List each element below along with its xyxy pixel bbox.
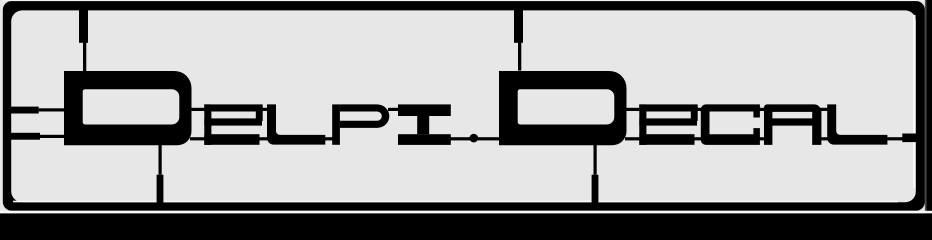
wire D2-E2 baseline connector [625, 137, 640, 140]
letter I [398, 104, 451, 144]
wire L2-border baseline connector [886, 137, 903, 140]
wire left tick lower thick [10, 133, 40, 140]
right black margin [926, 0, 932, 217]
wire bottom tick 1 thick [157, 175, 164, 204]
letter C [701, 104, 760, 144]
top white edge line [3, 0, 925, 1]
wire right tick thick [902, 134, 916, 143]
letter E2 [639, 104, 697, 144]
wire top tick 2 thin [518, 43, 521, 71]
letter P [332, 104, 389, 144]
letter L1 [267, 104, 325, 144]
letter L2 [827, 104, 887, 144]
wire E2-C top connector [697, 108, 702, 111]
wire left tick lower thin [40, 135, 65, 138]
right dark seam [925, 0, 927, 217]
wire A-L2 baseline connector [820, 137, 828, 140]
wire D2-E2 top connector [625, 108, 640, 111]
wire E1-L1 baseline connector [258, 137, 268, 140]
wire bottom tick 2 thin [594, 145, 597, 175]
wire I-dot baseline connector [450, 137, 470, 140]
wire top tick 1 thick [79, 9, 88, 43]
wire D1-E1 top connector [190, 108, 205, 111]
wire P-I top connector [388, 108, 398, 111]
wire C-A baseline connector [759, 137, 765, 140]
letter D2 [499, 71, 627, 145]
wire E1-L1 top connector [262, 108, 268, 111]
wire bottom tick 1 thin [159, 145, 162, 175]
letter D1 [64, 71, 192, 145]
wire L1-P baseline connector [324, 137, 333, 140]
period dot [470, 134, 479, 143]
bottom black margin [0, 213, 932, 217]
letter A [764, 104, 821, 145]
wire left tick upper thin [39, 108, 65, 111]
wire C-A top connector [759, 108, 765, 111]
bottom inner white highlight [13, 201, 898, 203]
wire top tick 2 thick [514, 9, 523, 43]
wire top tick 1 thin [83, 43, 86, 72]
letter E1 [204, 104, 262, 144]
wire left tick upper thick [10, 107, 39, 114]
bottom white edge line [0, 211, 932, 214]
wire A-L2 top connector [820, 108, 828, 111]
wire E2-C baseline connector [693, 137, 702, 140]
right inner white highlight [913, 15, 915, 188]
wire D1-E1 baseline connector [190, 137, 205, 140]
wire dot-D2 baseline connector [477, 137, 500, 140]
wire bottom tick 2 thick [592, 175, 599, 204]
